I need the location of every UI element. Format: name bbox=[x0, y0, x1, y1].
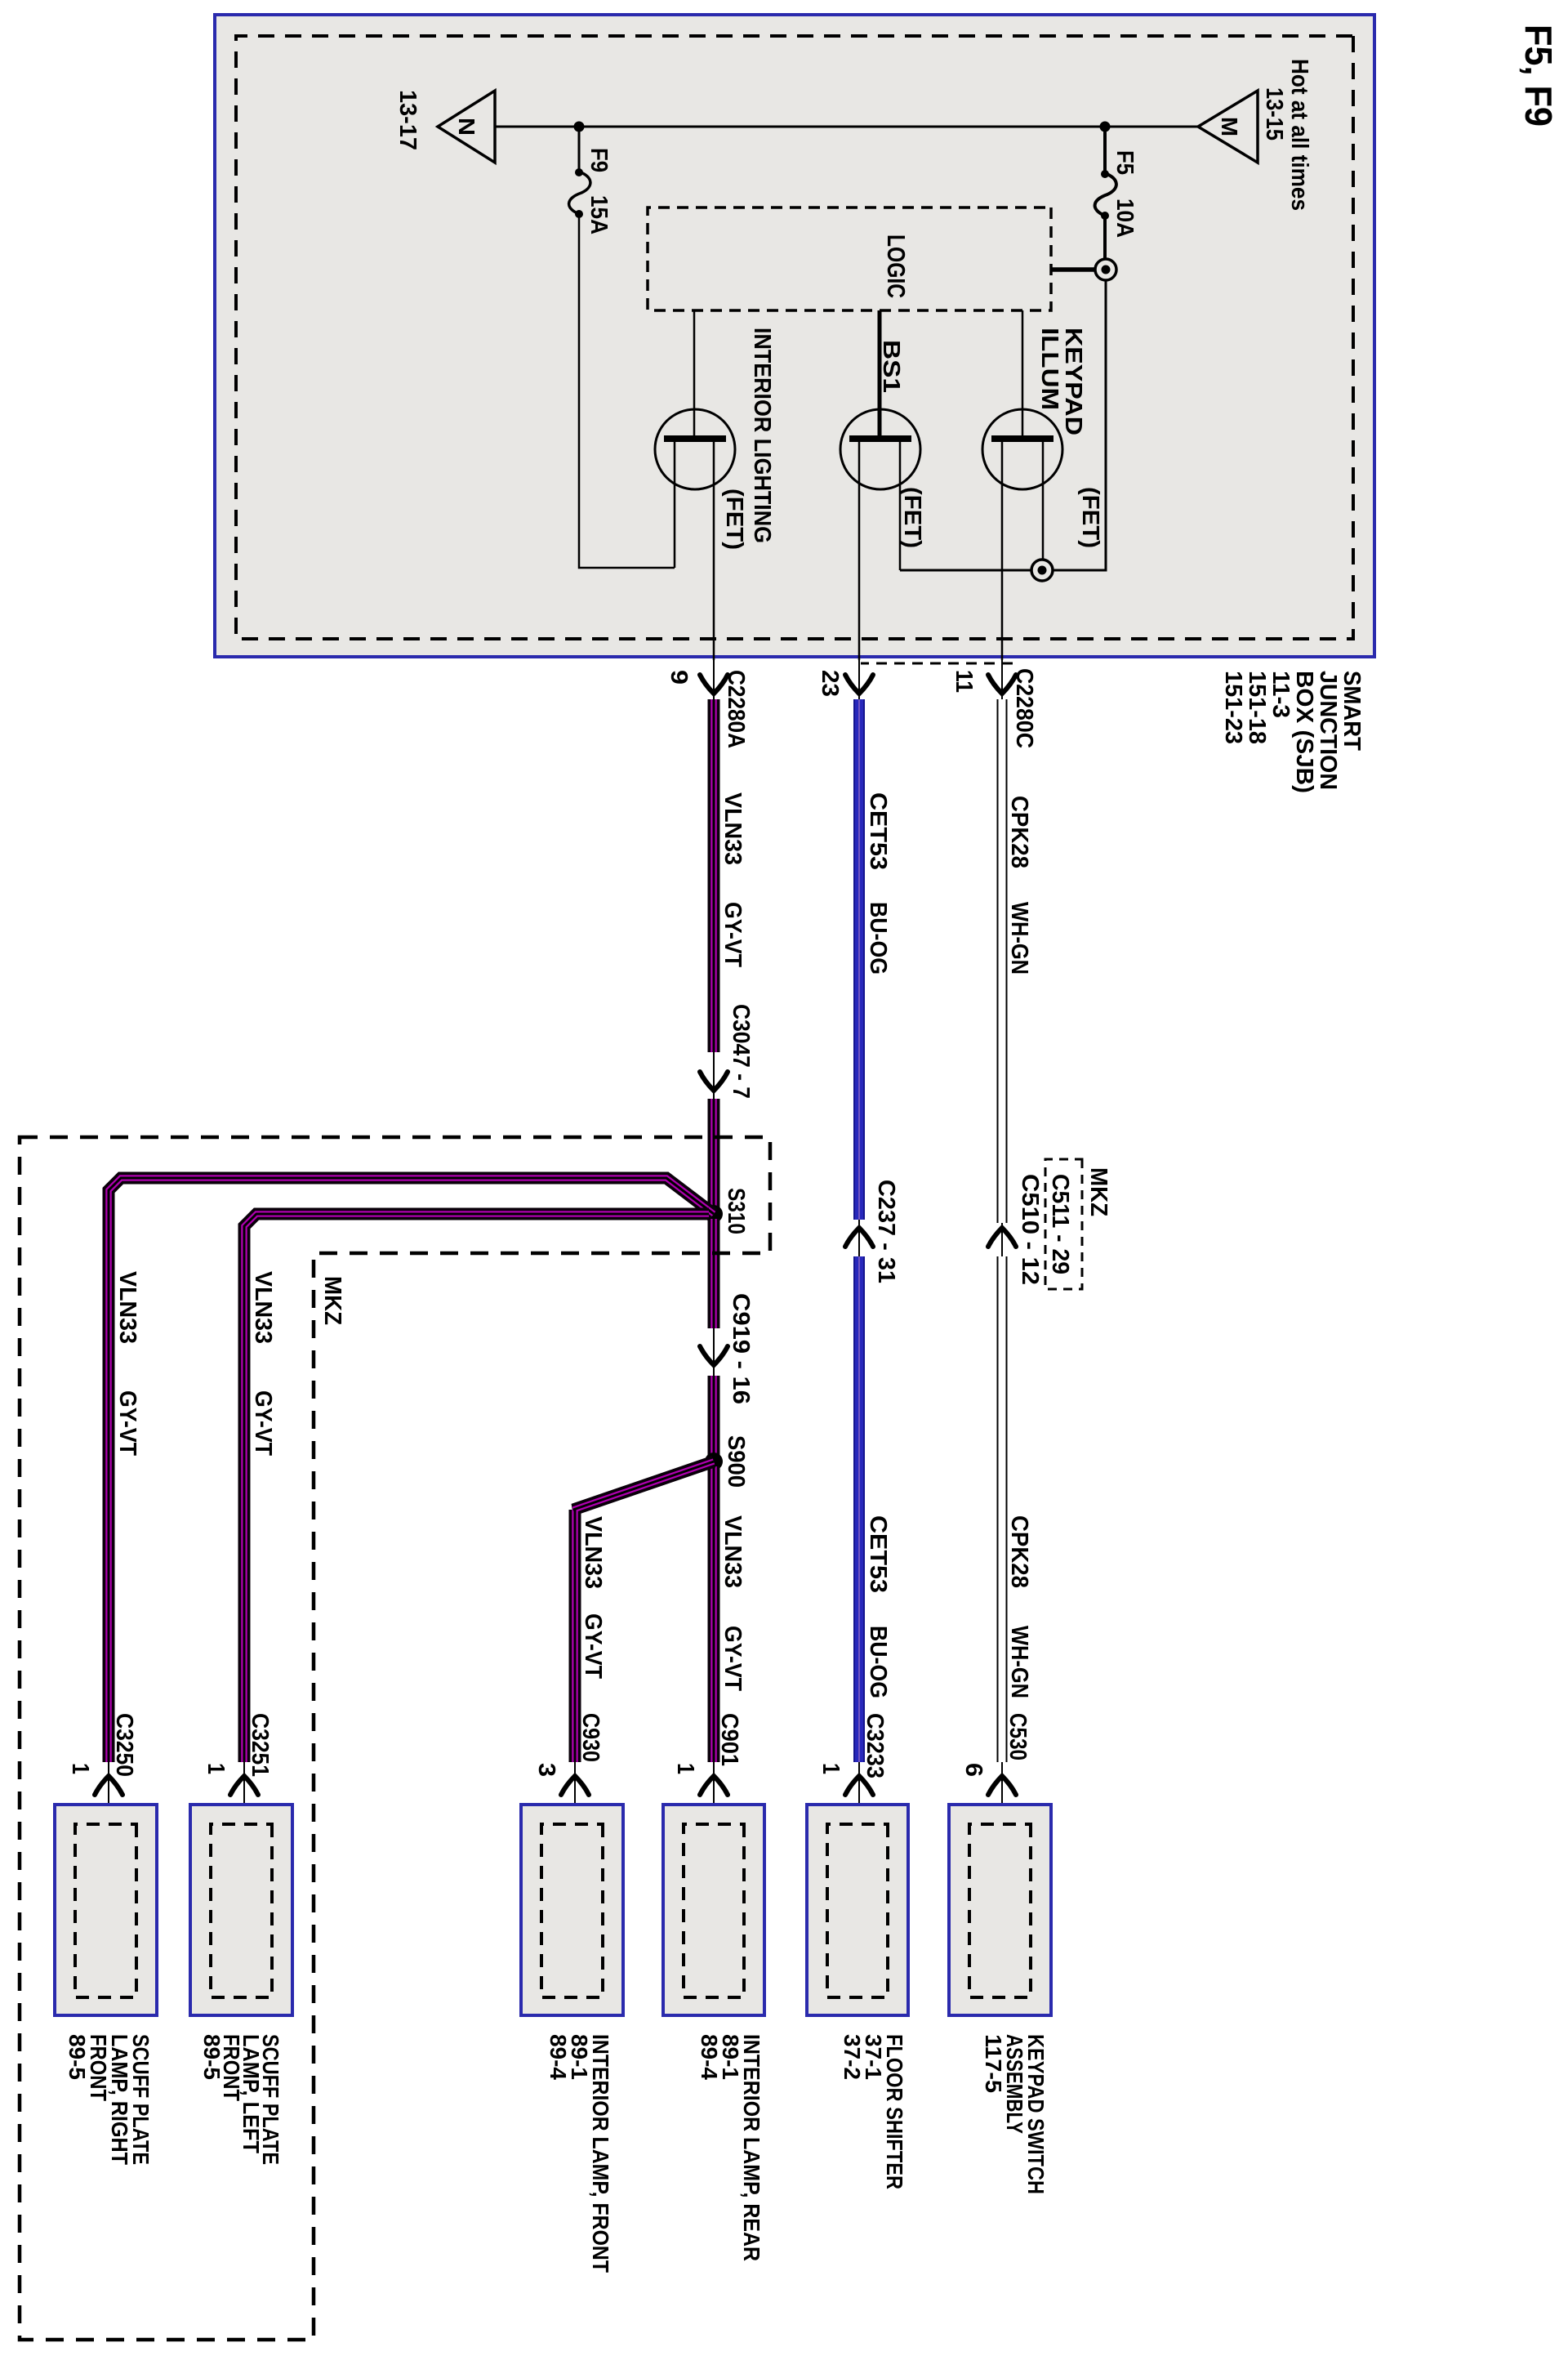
svg-text:9: 9 bbox=[666, 670, 692, 685]
connector C530 pin 6 bbox=[960, 1713, 1031, 1828]
svg-text:F5, F9: F5, F9 bbox=[1517, 25, 1560, 127]
connector C901 pin 1 bbox=[672, 1713, 742, 1828]
svg-text:(FET): (FET) bbox=[721, 489, 747, 550]
wire VLN33 segment 3 bbox=[708, 1219, 720, 1328]
svg-text:GY-VT: GY-VT bbox=[114, 1390, 140, 1456]
component keypad switch assembly bbox=[949, 1805, 1051, 2194]
svg-text:C919 - 16: C919 - 16 bbox=[728, 1293, 754, 1404]
svg-text:1: 1 bbox=[203, 1763, 229, 1774]
svg-text:C2280A: C2280A bbox=[723, 670, 749, 748]
svg-text:13-15: 13-15 bbox=[1261, 87, 1287, 141]
svg-text:3: 3 bbox=[533, 1763, 559, 1777]
svg-text:VLN33: VLN33 bbox=[719, 792, 746, 865]
svg-text:S310: S310 bbox=[723, 1188, 749, 1234]
svg-text:C2280C: C2280C bbox=[1011, 668, 1037, 748]
connector C3233 pin 1 bbox=[817, 1713, 888, 1828]
svg-text:GY-VT: GY-VT bbox=[719, 902, 746, 967]
svg-text:CET53: CET53 bbox=[865, 1515, 891, 1593]
svg-text:KEYPAD: KEYPAD bbox=[1060, 328, 1086, 435]
svg-text:C511 - 29: C511 - 29 bbox=[1047, 1174, 1073, 1274]
svg-text:MKZ: MKZ bbox=[319, 1276, 345, 1325]
wire supply rail bbox=[900, 280, 1106, 570]
connector C3047-7 bbox=[700, 1004, 754, 1099]
MKZ option box C511-29 bbox=[1017, 1159, 1111, 1289]
wire main feed bbox=[495, 126, 1198, 128]
pin 11 C2280C bbox=[951, 660, 1037, 748]
wire LOGIC feed bbox=[1051, 267, 1096, 272]
svg-text:C3251: C3251 bbox=[247, 1713, 273, 1777]
connector C510-12 bbox=[988, 1223, 1016, 1256]
component scuff plate lamp left front bbox=[190, 1805, 292, 2165]
svg-text:1: 1 bbox=[817, 1763, 844, 1774]
component floor shifter bbox=[807, 1805, 908, 2189]
FET BS1 bbox=[840, 310, 925, 660]
svg-text:CET53: CET53 bbox=[865, 792, 891, 870]
svg-text:ILLUM: ILLUM bbox=[1036, 328, 1062, 410]
connector C3251 pin 1 bbox=[203, 1713, 273, 1828]
svg-text:C930: C930 bbox=[577, 1713, 604, 1762]
wire VLN33 to C3250 (scuff right) bbox=[109, 1178, 714, 1762]
svg-text:LOGIC: LOGIC bbox=[882, 234, 911, 298]
svg-text:Hot at all times: Hot at all times bbox=[1286, 59, 1312, 211]
splice S310 bbox=[705, 1188, 749, 1234]
svg-text:VLN33: VLN33 bbox=[580, 1516, 606, 1589]
svg-text:SMART: SMART bbox=[1339, 671, 1365, 751]
splice S900 bbox=[705, 1435, 749, 1488]
svg-text:13-17: 13-17 bbox=[394, 90, 421, 150]
wire CPK28 WH-GN segment 1 bbox=[1002, 699, 1032, 1223]
wire VLN33 to C3251 (scuff left) bbox=[244, 1214, 709, 1762]
svg-text:(FET): (FET) bbox=[1077, 487, 1103, 548]
wire CPK28 WH-GN segment 2 bbox=[1002, 1256, 1032, 1762]
svg-text:VLN33: VLN33 bbox=[114, 1271, 140, 1344]
terminal F5 output bbox=[1095, 259, 1116, 280]
wire CET53 BU-OG segment 2 bbox=[859, 1256, 891, 1762]
svg-text:89-4: 89-4 bbox=[546, 2034, 571, 2080]
terminal keypad illum supply bbox=[1031, 560, 1053, 581]
svg-text:11-3: 11-3 bbox=[1267, 671, 1294, 718]
svg-text:N: N bbox=[454, 118, 479, 136]
LOGIC box bbox=[648, 207, 1051, 310]
SJB box bbox=[215, 15, 1374, 657]
svg-text:CPK28: CPK28 bbox=[1006, 1515, 1032, 1588]
svg-text:C237 - 31: C237 - 31 bbox=[873, 1180, 899, 1283]
pin 9 C2280A bbox=[666, 660, 749, 748]
component scuff plate lamp right front bbox=[55, 1805, 157, 2165]
svg-text:CPK28: CPK28 bbox=[1006, 796, 1032, 868]
node F5 tap bbox=[1100, 122, 1111, 132]
svg-text:M: M bbox=[1217, 117, 1242, 136]
wire CET53 BU-OG segment 1 bbox=[859, 699, 891, 1220]
svg-text:1: 1 bbox=[672, 1763, 698, 1774]
svg-text:JUNCTION: JUNCTION bbox=[1315, 671, 1341, 790]
component interior lamp rear bbox=[663, 1805, 764, 2261]
svg-text:F9: F9 bbox=[586, 148, 612, 172]
wire VLN33 to C901 bbox=[714, 1466, 746, 1762]
svg-text:37-2: 37-2 bbox=[840, 2034, 865, 2080]
svg-text:C901: C901 bbox=[716, 1713, 742, 1766]
connector C237-31 bbox=[845, 1180, 899, 1283]
svg-text:WH-GN: WH-GN bbox=[1006, 1626, 1032, 1698]
wire F9 to FET bbox=[579, 214, 675, 568]
connector C3250 pin 1 bbox=[67, 1713, 137, 1828]
svg-text:11: 11 bbox=[951, 670, 977, 693]
svg-text:15A: 15A bbox=[586, 195, 612, 234]
svg-text:C3233: C3233 bbox=[862, 1713, 888, 1778]
svg-text:23: 23 bbox=[817, 670, 843, 697]
svg-text:GY-VT: GY-VT bbox=[580, 1613, 606, 1679]
svg-text:6: 6 bbox=[960, 1763, 987, 1777]
MKZ dashed bracket bbox=[861, 663, 1013, 665]
svg-text:VLN33: VLN33 bbox=[250, 1271, 276, 1344]
SJB inner dashed border bbox=[236, 36, 1353, 639]
svg-text:C510 - 12: C510 - 12 bbox=[1017, 1174, 1043, 1285]
svg-text:89-5: 89-5 bbox=[199, 2034, 225, 2080]
fuse F5 bbox=[1095, 127, 1138, 260]
FET keypad illum bbox=[982, 310, 1103, 660]
SJB label block bbox=[1220, 671, 1365, 793]
fuse F9 bbox=[569, 127, 612, 234]
svg-text:1: 1 bbox=[67, 1763, 93, 1774]
svg-text:89-5: 89-5 bbox=[65, 2034, 90, 2080]
svg-text:F5: F5 bbox=[1111, 150, 1138, 175]
wire VLN33 GY-VT segment 1 bbox=[714, 699, 746, 1052]
MKZ dashed region bbox=[20, 1137, 770, 2340]
wire VLN33 segment 2 bbox=[708, 1099, 720, 1209]
connector C919-16 bbox=[700, 1293, 754, 1404]
power symbol N bbox=[394, 90, 495, 163]
svg-text:151-18: 151-18 bbox=[1244, 671, 1270, 744]
component interior lamp front bbox=[521, 1805, 623, 2273]
svg-text:89-4: 89-4 bbox=[697, 2034, 722, 2080]
svg-text:C3250: C3250 bbox=[111, 1713, 137, 1777]
power symbol M bbox=[1198, 91, 1258, 163]
svg-text:117-5: 117-5 bbox=[981, 2034, 1006, 2093]
svg-text:151-23: 151-23 bbox=[1220, 671, 1246, 744]
svg-text:GY-VT: GY-VT bbox=[719, 1626, 746, 1691]
svg-text:BOX (SJB): BOX (SJB) bbox=[1291, 671, 1317, 793]
svg-text:C3047 - 7: C3047 - 7 bbox=[728, 1004, 754, 1099]
wire VLN33 segment 4 bbox=[708, 1376, 720, 1457]
svg-text:S900: S900 bbox=[723, 1435, 749, 1488]
svg-text:BU-OG: BU-OG bbox=[865, 902, 891, 975]
svg-text:WH-GN: WH-GN bbox=[1006, 902, 1032, 975]
pin 23 bbox=[817, 660, 873, 699]
FET interior lighting bbox=[655, 310, 775, 660]
svg-text:C530: C530 bbox=[1004, 1713, 1031, 1760]
svg-text:VLN33: VLN33 bbox=[719, 1515, 746, 1588]
svg-text:BU-OG: BU-OG bbox=[865, 1626, 891, 1698]
node F9 tap bbox=[574, 122, 585, 132]
svg-text:MKZ: MKZ bbox=[1085, 1167, 1111, 1216]
connector C930 pin 3 bbox=[533, 1713, 604, 1828]
svg-text:BS1: BS1 bbox=[878, 340, 904, 393]
svg-text:(FET): (FET) bbox=[899, 487, 925, 548]
svg-text:GY-VT: GY-VT bbox=[250, 1390, 276, 1456]
wire VLN33 to C930 (interior lamp front) bbox=[573, 1461, 714, 1762]
svg-text:10A: 10A bbox=[1111, 199, 1138, 238]
svg-text:INTERIOR LIGHTING: INTERIOR LIGHTING bbox=[749, 328, 775, 543]
